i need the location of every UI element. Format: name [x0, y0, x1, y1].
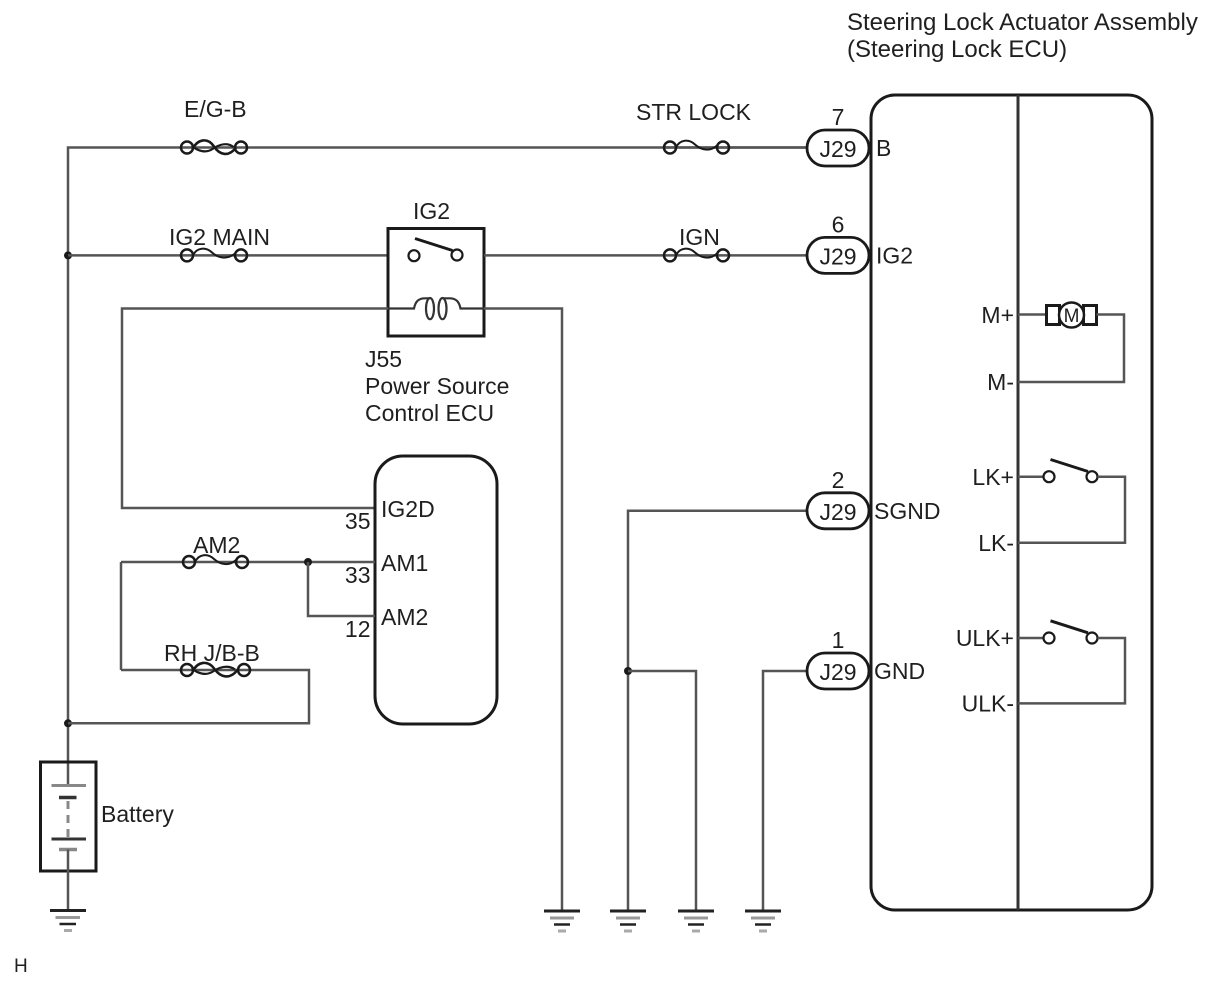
wire AM2 branch [308, 562, 375, 616]
svg-text:Power Source: Power Source [365, 373, 509, 399]
svg-text:B: B [876, 135, 891, 161]
label J55 [365, 346, 509, 426]
svg-text:IG2D: IG2D [381, 496, 435, 522]
wire M+ [1018, 313, 1046, 316]
switch ULK [1018, 621, 1098, 644]
wire RH J/B-B row [68, 670, 309, 723]
fuse RH J/B-B fusible link [181, 663, 250, 677]
wire motor loop to M- [1018, 315, 1124, 383]
relay IG2 box [388, 229, 484, 337]
svg-text:LK+: LK+ [972, 464, 1014, 490]
svg-text:H: H [14, 956, 28, 977]
pin 33 AM1 [345, 550, 428, 588]
svg-text:IG2: IG2 [413, 198, 450, 224]
switch LK [1018, 460, 1098, 483]
wire GND [763, 671, 807, 911]
wire LK loop [1018, 477, 1125, 543]
fuse IG2 MAIN [181, 249, 247, 262]
svg-text:M-: M- [987, 369, 1014, 395]
svg-text:STR LOCK: STR LOCK [636, 99, 752, 125]
ECU box J55 power source control [375, 456, 497, 724]
svg-text:7: 7 [832, 104, 845, 130]
svg-text:IG2: IG2 [876, 242, 913, 268]
wire STR LOCK segment [664, 146, 807, 149]
svg-text:E/G-B: E/G-B [184, 96, 247, 122]
svg-text:J55: J55 [365, 346, 402, 372]
svg-text:6: 6 [832, 211, 845, 237]
svg-text:J29: J29 [819, 243, 856, 269]
wire AM2 to RH J/B-B vertical [120, 562, 123, 670]
svg-text:(Steering Lock ECU): (Steering Lock ECU) [847, 36, 1067, 63]
svg-text:Control ECU: Control ECU [365, 400, 494, 426]
relay IG2 switch lever [415, 239, 453, 251]
svg-text:12: 12 [345, 616, 371, 642]
wire coil to ground [484, 309, 562, 912]
svg-text:35: 35 [345, 508, 371, 534]
node junction IG2 MAIN [64, 251, 72, 259]
connector J29 pin 2 SGND [807, 467, 940, 529]
svg-text:IGN: IGN [679, 224, 720, 250]
wire ULK loop [1018, 638, 1125, 703]
svg-text:M+: M+ [981, 302, 1014, 328]
ECU box J29 steering lock actuator assembly [871, 95, 1152, 910]
svg-text:2: 2 [832, 467, 845, 493]
svg-text:J29: J29 [819, 659, 856, 685]
ground SGND 2 [678, 911, 714, 931]
svg-text:1: 1 [832, 627, 845, 653]
ground GND [745, 911, 781, 931]
ECU internal divider line [1017, 95, 1020, 910]
svg-text:ULK+: ULK+ [956, 625, 1014, 651]
svg-text:AM2: AM2 [381, 604, 428, 630]
svg-text:GND: GND [874, 658, 925, 684]
svg-text:SGND: SGND [874, 498, 940, 524]
fuse STR LOCK [664, 141, 729, 154]
motor M [1047, 303, 1097, 328]
wire IGN row [484, 254, 807, 257]
battery plates [52, 786, 87, 850]
connector J29 pin 7 B [807, 104, 891, 166]
svg-text:M: M [1064, 306, 1080, 327]
ground coil [544, 911, 580, 931]
svg-text:Steering Lock Actuator Assembl: Steering Lock Actuator Assembly [847, 9, 1198, 36]
fuse AM2 [183, 555, 248, 568]
svg-text:Battery: Battery [101, 801, 174, 827]
relay IG2 switch contacts [409, 250, 420, 261]
svg-text:RH J/B-B: RH J/B-B [164, 640, 260, 666]
svg-text:J29: J29 [819, 136, 856, 162]
svg-text:AM1: AM1 [381, 550, 428, 576]
wire coil to IG2D [122, 309, 388, 509]
title Steering Lock Actuator Assembly [847, 9, 1198, 63]
fuse E/G-B fusible link [181, 140, 247, 154]
svg-text:ULK-: ULK- [962, 690, 1014, 716]
pin 35 IG2D [345, 496, 435, 534]
wire SGND branch ground [628, 671, 696, 911]
svg-text:J29: J29 [819, 499, 856, 525]
connector J29 pin 1 GND [807, 627, 925, 689]
wire SGND [628, 511, 807, 911]
node junction AM1/AM2 [304, 558, 312, 566]
wire AM2 fuse row [121, 561, 375, 564]
pin 12 AM2 [345, 604, 428, 642]
relay IG2 coil [388, 298, 484, 319]
wire battery bus vertical [68, 148, 807, 786]
ground battery [50, 911, 86, 931]
fuse IGN [664, 249, 729, 262]
svg-text:33: 33 [345, 562, 371, 588]
svg-text:LK-: LK- [978, 530, 1014, 556]
node junction SGND grounds [624, 667, 632, 675]
wire battery to ground [67, 850, 70, 911]
connector J29 pin 6 IG2 [807, 211, 913, 273]
ground SGND 1 [610, 911, 646, 931]
svg-text:IG2 MAIN: IG2 MAIN [169, 224, 270, 250]
node junction RH J/B-B return [64, 719, 72, 727]
wire IG2 MAIN row [68, 254, 388, 257]
svg-text:AM2: AM2 [193, 532, 240, 558]
battery box [41, 762, 97, 871]
